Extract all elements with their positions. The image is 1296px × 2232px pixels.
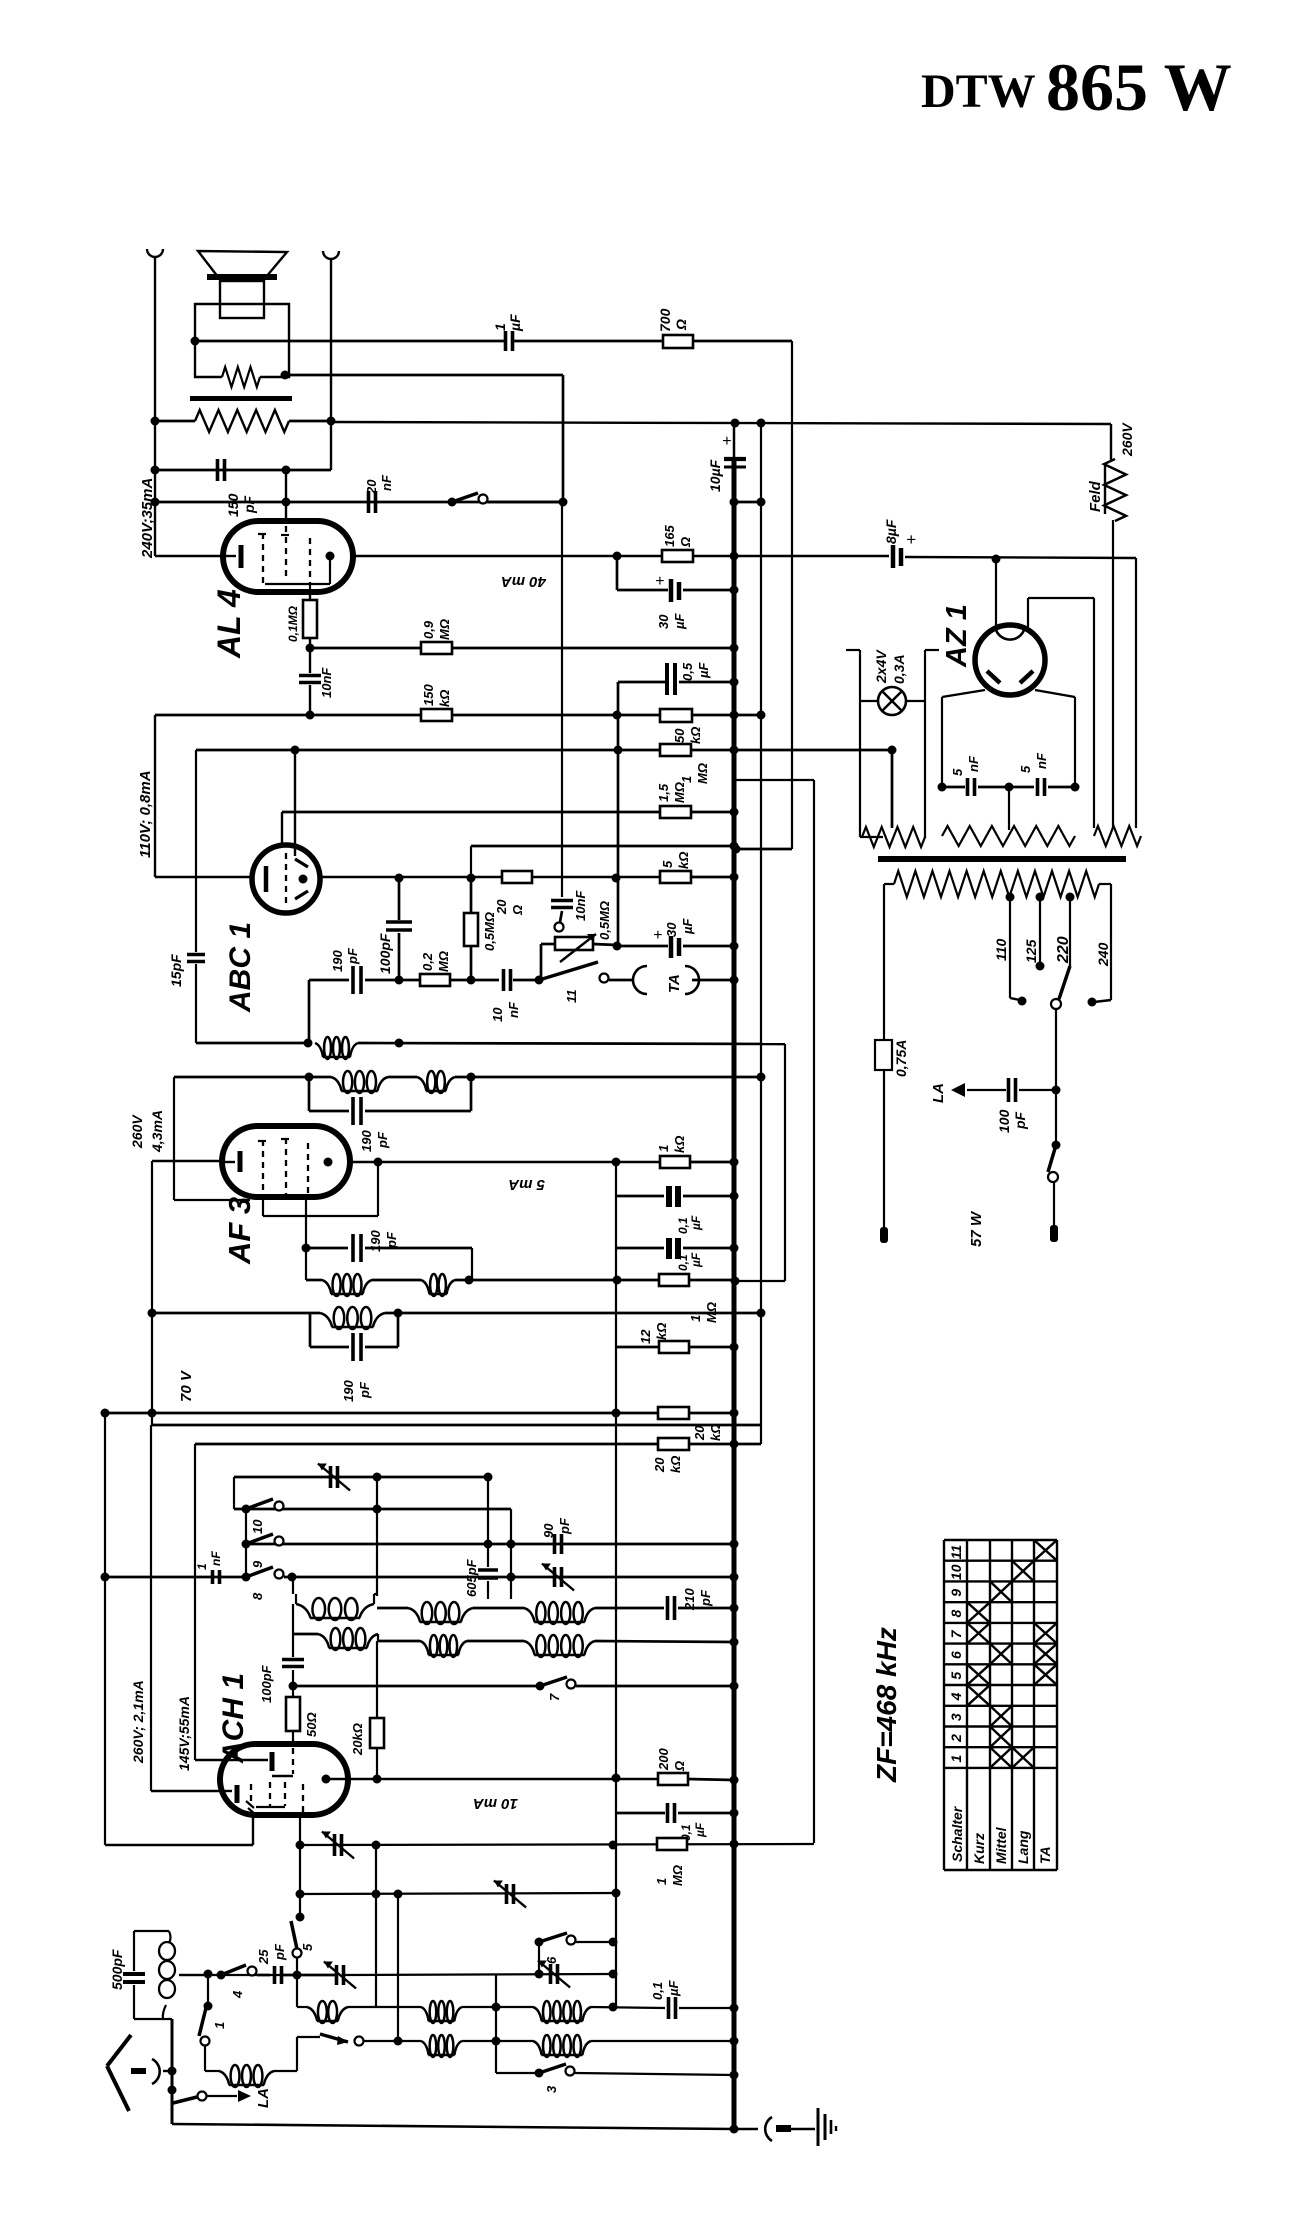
coil row2007 b (421, 2007, 429, 2021)
wire x616 long vertical (615, 1162, 617, 2007)
svg-text:260V: 260V (1119, 422, 1135, 457)
node y1477 x488 (484, 1473, 493, 1482)
node ground bus (730, 2125, 739, 2134)
node 210pF bus (730, 1604, 739, 1613)
svg-text:DTW: DTW (921, 65, 1036, 118)
svg-text:110: 110 (993, 938, 1009, 961)
svg-text:30: 30 (664, 922, 679, 937)
capacitor 100pF ABC1 (398, 878, 401, 920)
power transformer primary winding (894, 871, 1099, 897)
resistor 150k Ohm (421, 709, 452, 721)
capacitor 30uF electrolytic (669, 579, 674, 602)
capacitor 10uF on bus (724, 457, 746, 461)
tube ABC1 (252, 845, 320, 913)
capacitor 100pF mains (1019, 1089, 1056, 1091)
svg-text:10: 10 (250, 1519, 265, 1534)
switch contact on y502 (448, 498, 457, 507)
node x308 (304, 1039, 313, 1048)
node 50k x761 (757, 711, 766, 720)
svg-text:µF: µF (680, 918, 695, 935)
svg-text:605pF: 605pF (464, 1558, 479, 1597)
AL4 inner bottom bar (265, 583, 330, 585)
wire y1894 line (300, 1893, 616, 1894)
svg-text:0,1: 0,1 (676, 1217, 690, 1234)
wire AVC vertical x761 (760, 423, 762, 1444)
svg-text:20: 20 (692, 1425, 707, 1441)
svg-text:nF: nF (379, 474, 394, 491)
svg-text:0,1MΩ: 0,1MΩ (286, 605, 300, 642)
svg-text:240V;35mA: 240V;35mA (139, 478, 156, 559)
svg-text:Feld: Feld (1087, 480, 1104, 512)
mains selector to switch (1055, 1009, 1057, 1090)
svg-text:+: + (722, 433, 731, 450)
resistor 1M Ohm 2 (659, 1274, 689, 1286)
svg-text:20kΩ: 20kΩ (350, 1723, 365, 1756)
node TA bus (730, 976, 739, 985)
svg-text:pF: pF (384, 1231, 399, 1249)
wire x376 vertical (375, 1845, 377, 2007)
wire switch line y1509 (234, 1508, 511, 1511)
output transformer core bar (190, 396, 292, 401)
capacitor 190pF IF1 sec (308, 1077, 311, 1111)
svg-text:1: 1 (212, 2022, 227, 2029)
wire left vertical x155 top (154, 257, 156, 556)
svg-text:kΩ: kΩ (668, 1456, 683, 1473)
svg-text:MΩ: MΩ (672, 782, 687, 803)
output transformer secondary winding zigzag (195, 410, 289, 432)
coil osc row2 group2 (378, 1640, 420, 1643)
svg-text:kΩ: kΩ (654, 1323, 669, 1340)
AZ1 anode pin 2 (1027, 598, 1029, 632)
svg-text:40 mA: 40 mA (501, 573, 547, 590)
trimmer y1894 (505, 1884, 509, 1904)
capacitor 1uF (504, 331, 508, 351)
node y502 x761 (757, 498, 766, 507)
svg-text:kΩ: kΩ (688, 727, 703, 744)
resistor 700 Ohm (663, 335, 693, 348)
node x563 y502 (559, 498, 568, 507)
switch 8 (242, 1573, 251, 1582)
node x399 y1043 (395, 1039, 404, 1048)
AZ1 filament leads (942, 690, 985, 697)
resistor 165 Ohm (662, 550, 693, 562)
capacitor 30uF 2 electrolytic (617, 945, 668, 948)
ABC1 anode dot (299, 875, 308, 884)
wire left vertical x105 (104, 1413, 106, 1845)
node y1845 x376 (372, 1841, 381, 1850)
svg-text:57 W: 57 W (968, 1210, 985, 1247)
resistor 0,1M Ohm below AL4 (309, 592, 311, 600)
wire 1,5M rung y812 (282, 811, 734, 814)
capacitor 8uF electrolytic (891, 545, 896, 568)
node y1313 x398 (394, 1309, 403, 1318)
svg-text:MΩ: MΩ (436, 951, 451, 972)
node 0,1uF bus (730, 1192, 739, 1201)
svg-text:5: 5 (950, 768, 965, 776)
node AL4 grid y502 (282, 498, 291, 507)
svg-text:125: 125 (1023, 939, 1039, 963)
wire 20nF line y502 (155, 501, 563, 504)
node 30uF2 bus (730, 942, 739, 951)
node speaker secondary right (327, 417, 336, 426)
ground jack (765, 2117, 772, 2141)
resistor 20 Ohm (502, 871, 532, 883)
AL4 grid dashes (262, 533, 264, 583)
svg-text:100pF: 100pF (377, 933, 393, 974)
wire x814 vertical right (734, 779, 814, 781)
svg-text:190: 190 (330, 950, 345, 972)
svg-text:0,75A: 0,75A (893, 1040, 909, 1077)
svg-text:190: 190 (341, 1380, 356, 1402)
node y1845 x613 (609, 1841, 618, 1850)
wire right vertical x331 (330, 259, 332, 470)
svg-text:240: 240 (1095, 942, 1111, 967)
coil IF2 primary b (421, 1280, 430, 1294)
svg-text:0,9: 0,9 (421, 620, 436, 639)
node y1577 x511 (507, 1573, 516, 1582)
coil osc row2 group3 (467, 1640, 524, 1643)
resistor Feld field coil (1104, 459, 1126, 521)
resistor 200 Ohm (658, 1773, 688, 1785)
mains tap 110 (1006, 893, 1015, 902)
node y846 bus (730, 842, 739, 851)
svg-text:pF: pF (241, 495, 257, 514)
wire AL4 cathode line (155, 555, 223, 557)
capacitor 0,1uF ACH1 cathode (616, 1812, 665, 1815)
svg-text:kΩ: kΩ (676, 852, 691, 869)
capacitor 605pF (487, 1477, 489, 1567)
svg-text:12: 12 (638, 1329, 653, 1344)
svg-text:3: 3 (544, 2085, 559, 2093)
tube AL4 (223, 521, 353, 592)
wire x792 vertical from 700 Ohm (791, 341, 793, 849)
svg-text:nF: nF (966, 755, 981, 772)
svg-text:1: 1 (688, 1315, 703, 1322)
svg-text:9: 9 (250, 1560, 265, 1568)
ACH1 anode dot (322, 1775, 331, 1784)
coil IF1 secondary b (417, 1077, 427, 1091)
svg-text:Kurz: Kurz (971, 1833, 987, 1864)
svg-text:+: + (653, 927, 662, 944)
svg-text:LA: LA (255, 2088, 272, 2108)
wire IF1 secondary line y1077 (174, 1076, 331, 1079)
node 1M3 bus (730, 1840, 739, 1849)
mains tap 220 with switch (1066, 893, 1075, 902)
switch 4 (221, 1965, 246, 1975)
capacitor 210pF (666, 1596, 670, 1620)
svg-text:15pF: 15pF (168, 954, 184, 987)
tube AZ1 (975, 625, 1045, 695)
svg-text:50Ω: 50Ω (304, 1712, 319, 1737)
node y1280 x617 (613, 1276, 622, 1285)
capacitor 0,1uF AF3 anode (616, 1195, 664, 1198)
svg-text:20: 20 (652, 1457, 667, 1473)
wire 5nF centre tap (1008, 787, 1010, 830)
wire y423 corner down (1110, 424, 1112, 460)
svg-text:5: 5 (948, 1672, 964, 1680)
antenna LC bottom (134, 2018, 172, 2020)
svg-text:kΩ: kΩ (672, 1136, 687, 1153)
svg-text:Ω: Ω (673, 319, 689, 331)
node x792 joins bus (732, 845, 741, 854)
svg-text:865 W: 865 W (1046, 49, 1232, 125)
node y502 bus (730, 498, 739, 507)
node row2 bus (730, 1638, 739, 1647)
node 1M bus (730, 746, 739, 755)
tube AF3 (222, 1126, 350, 1197)
node 0,5uF bus (730, 678, 739, 687)
ground line (172, 2124, 734, 2129)
main bus vertical (733, 423, 736, 461)
wire row 2041 (364, 2040, 421, 2042)
svg-text:20: 20 (364, 479, 379, 495)
mains tap 125 (1036, 893, 1045, 902)
wire AF3 anode line y1162 (350, 1161, 660, 1163)
speaker terminal left (147, 249, 163, 257)
svg-text:11: 11 (564, 990, 579, 1004)
switch 7 (540, 1677, 567, 1686)
node y1077 x761 (757, 1073, 766, 1082)
node grid1 x295 (291, 746, 300, 755)
svg-text:200: 200 (656, 1748, 671, 1771)
svg-text:0,2: 0,2 (420, 952, 435, 971)
capacitor 150pF (155, 469, 331, 472)
svg-text:10: 10 (948, 1564, 964, 1580)
resistor 1M Ohm 3 (657, 1838, 687, 1850)
capacitor 10nF demod (502, 969, 506, 991)
node switch3 bus (730, 2071, 739, 2080)
loudspeaker cone (198, 251, 287, 277)
coil IF1 primary (315, 1043, 323, 1057)
AF3 cathode bar (222, 1161, 235, 1163)
svg-text:700: 700 (657, 308, 673, 332)
coil osc row1 group3 (473, 1607, 524, 1610)
node anode line bus (730, 552, 739, 561)
resistor 12k rung (616, 1346, 659, 1349)
branch 30uF AL4 cathode (616, 556, 619, 590)
svg-text:0,5: 0,5 (680, 662, 695, 681)
node x292 y1577 (288, 1573, 297, 1582)
AF3 anode dot (324, 1158, 333, 1167)
trimmer cap osc (329, 1466, 333, 1488)
svg-text:100pF: 100pF (259, 1664, 274, 1703)
mains switch bottom (1055, 1090, 1057, 1143)
svg-text:1: 1 (656, 1145, 671, 1152)
svg-text:0,5MΩ: 0,5MΩ (597, 901, 612, 940)
node 1k bus (730, 1158, 739, 1167)
output transformer primary box (195, 304, 289, 341)
wire IF1 primary line y1043 (196, 1042, 309, 1045)
trimmer y1974 b (549, 1964, 553, 1984)
AL4 cathode bar (223, 555, 236, 557)
svg-text:25: 25 (256, 1949, 271, 1965)
node 0,1M to 0,9M (306, 644, 315, 653)
node row2007 bus (730, 2004, 739, 2013)
trimmer on y1577 (553, 1567, 557, 1587)
arrow LA mains (951, 1083, 965, 1097)
node 50k bus (730, 711, 739, 720)
node y1477 x377 (373, 1473, 382, 1482)
wire 70V line y1413 (105, 1412, 658, 1415)
capacitor 10nF below 0,1M (309, 648, 311, 673)
speaker magnet (220, 281, 264, 318)
antenna coil vertical (169, 1931, 171, 1943)
capacitor 100pF osc (292, 1634, 294, 1657)
svg-text:10nF: 10nF (573, 890, 588, 921)
svg-text:LA: LA (930, 1083, 947, 1103)
capacitor 0,1uF ant (667, 1997, 671, 2019)
wire x496 corner (495, 1974, 497, 2073)
wire x617 vertical (617, 682, 620, 946)
svg-text:+: + (906, 530, 916, 549)
svg-text:+: + (655, 573, 664, 590)
svg-text:AF 3: AF 3 (222, 1197, 257, 1265)
svg-text:AL 4: AL 4 (211, 589, 247, 659)
wire AVC line y1425 (152, 1424, 761, 1427)
resistor 20k Ohm 2 (658, 1438, 689, 1450)
capacitor 190pF IF2 sec (309, 1313, 312, 1347)
switch 10 (246, 1499, 273, 1509)
wire x1136 down to transformer (1135, 558, 1137, 828)
switch 6 line y1942 (535, 1938, 544, 1947)
capacitor 25pF (257, 1974, 270, 1977)
svg-text:4: 4 (948, 1692, 964, 1701)
svg-text:3: 3 (948, 1713, 964, 1721)
node grid AL4 y470 (282, 466, 291, 475)
svg-text:9: 9 (948, 1589, 964, 1597)
ABC1 grid dash (285, 853, 287, 903)
node 0,5M y980 (467, 976, 476, 985)
svg-text:90: 90 (541, 1523, 556, 1538)
node y1077 x471 (467, 1073, 476, 1082)
antenna symbol (107, 2035, 131, 2066)
svg-text:nF: nF (209, 1551, 223, 1566)
coil row2007 c (533, 2007, 542, 2021)
ACH1 inner bottom bar (256, 1806, 285, 1808)
resistor 1k Ohm (660, 1156, 690, 1168)
node y1544 x511 (507, 1540, 516, 1549)
resistor 50k Ohm (660, 709, 692, 722)
coil LA antenna (219, 2071, 229, 2085)
capacitor 5nF left (966, 778, 970, 796)
power transformer core bar (878, 856, 1126, 862)
node row2007 x613 (609, 2003, 618, 2012)
capacitor 5nF right (1036, 778, 1040, 796)
svg-text:4,3mA: 4,3mA (149, 1110, 165, 1153)
wire 1uF line y341 (195, 340, 505, 343)
svg-text:1: 1 (492, 323, 508, 331)
svg-text:150: 150 (421, 684, 436, 706)
node x399 y980 (395, 976, 404, 985)
trimmer tuning (335, 1965, 339, 1985)
wire ABC1 anode line y877 (320, 876, 660, 878)
svg-text:Mittel: Mittel (993, 1826, 1009, 1864)
wire 150k line y715 (154, 714, 157, 717)
wire x892 into winding (891, 750, 893, 827)
ACH1 triode grid bar (222, 1759, 268, 1761)
node y1313 x761 (757, 1309, 766, 1318)
svg-text:5: 5 (660, 860, 675, 868)
svg-text:6: 6 (948, 1651, 964, 1659)
svg-text:110V; 0,8mA: 110V; 0,8mA (137, 770, 154, 858)
switch 1 (207, 1975, 209, 2006)
wire 1M rung y750 (196, 749, 892, 752)
wire x377 vertical (376, 1477, 378, 1596)
wire ACH1 cathode (252, 1815, 254, 1845)
coil row2041 b (533, 2041, 542, 2055)
wire switch line y1544 (242, 1540, 251, 1549)
LA arrow bottom (168, 2086, 177, 2095)
resistor 1M Ohm (660, 744, 691, 756)
svg-text:260V; 2,1mA: 260V; 2,1mA (130, 1680, 146, 1764)
node y648 bus (730, 644, 739, 653)
dial lamp 2x4V (878, 687, 906, 715)
switch table X marks (990, 1747, 1012, 1768)
wire AF3 cathode (152, 1160, 222, 1162)
node 0,1uF3 bus (730, 1809, 739, 1818)
wire LA coil to switch2 (274, 2070, 297, 2072)
node 200 Ohm bus (730, 1776, 739, 1785)
node 70V bus (730, 1409, 739, 1418)
svg-text:µF: µF (689, 1252, 703, 1268)
svg-text:1: 1 (654, 1878, 669, 1885)
svg-text:ABC 1: ABC 1 (224, 922, 257, 1013)
node 1,5M bus (730, 808, 739, 817)
wire x297 down (296, 1975, 298, 2007)
switch 11 (539, 962, 598, 980)
svg-text:260V: 260V (129, 1114, 145, 1149)
svg-text:100: 100 (996, 1109, 1012, 1133)
wire y375 from primary (281, 371, 290, 380)
svg-text:pF: pF (1012, 1111, 1028, 1130)
svg-text:220: 220 (1055, 936, 1072, 964)
svg-text:nF: nF (506, 1001, 521, 1018)
svg-text:pF: pF (345, 947, 360, 965)
coil row2007 a (307, 2007, 317, 2021)
ABC1 diode plates (295, 859, 308, 867)
svg-text:AZ 1: AZ 1 (941, 604, 973, 668)
resistor 50 Ohm vertical (286, 1697, 300, 1731)
wire 20k stem x377 (377, 1634, 379, 1641)
node y1544 x488 (484, 1540, 493, 1549)
wire IF2 primary cap line y1248 (305, 1197, 307, 1280)
node 10nF y715 (306, 711, 315, 720)
capacitor 500pF (123, 1972, 145, 1976)
resistor 0,2M Ohm (420, 974, 450, 986)
svg-text:11: 11 (948, 1545, 964, 1560)
AZ1 anode pin top (995, 559, 997, 627)
wire row 2007 (297, 2006, 307, 2008)
svg-text:5: 5 (1018, 765, 1033, 773)
wire x892 to transformer (891, 750, 894, 828)
svg-text:0,1: 0,1 (650, 1982, 665, 2000)
wire x785 right loop (784, 1044, 786, 1281)
node 12k bus (730, 1343, 739, 1352)
capacitor 15pF (195, 750, 197, 952)
coil IF2 secondary (320, 1313, 332, 1327)
svg-text:pF: pF (698, 1589, 713, 1607)
resistor 20k Ohm (658, 1407, 689, 1419)
capacitor 190pF IF2 (351, 1234, 355, 1262)
lamp rail corner (860, 836, 883, 838)
svg-text:ZF=468 kHz: ZF=468 kHz (871, 1627, 902, 1783)
capacitor 10nF pot (561, 502, 563, 897)
wire y846 screen line (471, 845, 734, 848)
node y1577 bus (730, 1573, 739, 1582)
node switch11 (535, 976, 544, 985)
antenna coil tap (179, 1974, 208, 1976)
svg-text:70 V: 70 V (178, 1369, 195, 1402)
